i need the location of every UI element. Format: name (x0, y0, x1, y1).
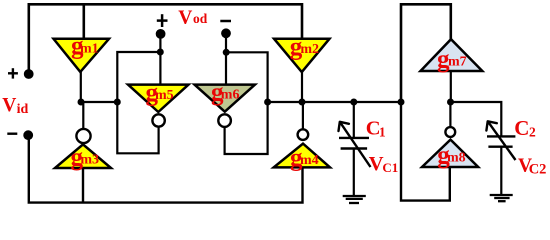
wire rail to gm4 bubble (302, 102, 304, 129)
svg-text:m7: m7 (448, 54, 467, 69)
node junction railA-loop (114, 99, 121, 106)
op-amp gm8 (422, 127, 478, 169)
svg-text:C: C (514, 116, 529, 140)
svg-text:m8: m8 (447, 151, 466, 166)
wire node C rail to C2 top plate (450, 102, 501, 136)
wire C1 bottom plate to ground (353, 149, 355, 196)
svg-text:C1: C1 (382, 160, 398, 175)
wire C2 bottom plate to ground (500, 147, 502, 195)
node junction C1-rail (350, 99, 357, 106)
label + (Vid) (8, 68, 18, 78)
wire gm7 base to node C (450, 71, 452, 102)
svg-text:C2: C2 (529, 162, 547, 178)
wire left rail node A (81, 101, 118, 103)
svg-text:V: V (178, 7, 192, 28)
op-amp gm2 (274, 33, 330, 72)
wire Vod+ loop to node A (117, 52, 160, 153)
svg-text:m3: m3 (80, 153, 99, 168)
ground below C2 (490, 195, 513, 201)
label - (Vid) (7, 132, 17, 134)
ground below C1 (343, 196, 366, 203)
capacitor C1 (variable) (339, 122, 371, 167)
op-amp gm1 (54, 33, 110, 72)
wire rail to C1 top plate (353, 102, 355, 138)
node Vod- terminal (221, 28, 231, 38)
label + (Vod) (157, 14, 168, 27)
svg-text:m1: m1 (80, 41, 99, 56)
svg-text:m5: m5 (155, 88, 174, 103)
node junction Vod- (223, 49, 230, 56)
svg-text:2: 2 (529, 125, 536, 140)
node Vid- terminal (23, 130, 33, 140)
svg-text:1: 1 (379, 124, 386, 139)
op-amp gm6 (195, 79, 256, 127)
svg-text:m4: m4 (300, 153, 319, 168)
node Vod+ terminal (156, 29, 166, 39)
node junction Vod+ (157, 49, 164, 56)
node junction gm7-base (447, 99, 454, 106)
wire top-left loop (Vid+ up and over to gm2 input) (29, 4, 302, 74)
node junction gm6-loop rail (264, 99, 271, 106)
capacitor C2 (variable) (486, 121, 515, 160)
wire rail to gm3 bubble (82, 102, 84, 130)
wire Vod- terminal down to gm6 input (225, 33, 227, 86)
svg-text:od: od (193, 11, 208, 26)
node junction gm1-rail (78, 99, 85, 106)
svg-text:m6: m6 (221, 88, 240, 103)
wire gm2 apex to rail (301, 71, 303, 103)
op-amp gm4 (274, 129, 330, 171)
svg-text:m2: m2 (300, 42, 319, 57)
wire Vod+ terminal down to gm5 input (159, 34, 161, 86)
wire right rail node B (268, 101, 401, 103)
wire gm1 top input stub (83, 4, 86, 40)
node junction gm2-rail (299, 99, 306, 106)
wire gm3 base stub (82, 167, 84, 203)
label - (Vod) (220, 20, 231, 23)
wire gm1 apex to rail (80, 71, 82, 103)
svg-text:V: V (2, 95, 16, 116)
op-amp gm5 (128, 79, 189, 126)
op-amp gm7 (421, 39, 483, 73)
wire node C to gm8 bubble (449, 102, 451, 126)
svg-text:id: id (17, 102, 29, 117)
wire Vod- loop to node B (225, 52, 268, 154)
node junction gyrator-left (398, 99, 405, 106)
wire gyrator top loop (node B to gm7 apex) (401, 4, 451, 102)
op-amp gm3 (55, 129, 111, 171)
node Vid+ terminal (24, 69, 34, 79)
wire bottom-left loop (Vid- to gm4 base) (29, 135, 303, 202)
wire gyrator bottom loop (node B to gm8 base) (401, 102, 450, 201)
